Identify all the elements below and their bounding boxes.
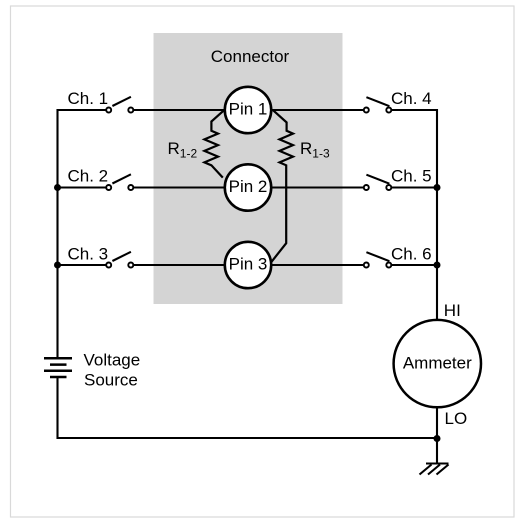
wire: Ch.5 return to right bus: [392, 186, 437, 188]
wire: Pin 3 to switch Ch.6: [262, 264, 363, 266]
node: junction left bus / Ch.3: [54, 262, 61, 269]
node: junction left bus / Ch.2: [54, 184, 61, 191]
svg-text:Ch. 5: Ch. 5: [391, 167, 432, 186]
wire: lower left bus from battery to bottom rail: [58, 377, 439, 438]
connector pin Pin 3: [225, 242, 271, 288]
wire: Ch.3 feed from left bus: [58, 264, 108, 266]
svg-text:Connector: Connector: [211, 47, 290, 66]
node: junction right bus / Ch.6: [434, 262, 441, 269]
wire: switch Ch.3 to Pin 3: [134, 264, 235, 266]
wire: switch Ch.2 to Pin 2: [134, 186, 235, 188]
ground symbol: [420, 464, 449, 475]
svg-text:Ch. 6: Ch. 6: [391, 244, 432, 263]
svg-text:Ch. 1: Ch. 1: [68, 89, 109, 108]
svg-text:Pin 2: Pin 2: [229, 177, 268, 196]
wire: Ch.6 return to right bus: [392, 264, 437, 266]
svg-text:Ammeter: Ammeter: [403, 354, 472, 373]
wire: left bus (Ch.1 feed + vertical to battery): [58, 110, 108, 359]
svg-text:HI: HI: [444, 301, 461, 320]
battery B1 (voltage source): [44, 358, 72, 377]
svg-text:Source: Source: [84, 371, 138, 390]
switch Ch.3: [106, 252, 133, 268]
svg-text:Ch. 3: Ch. 3: [68, 244, 109, 263]
wire: ammeter LO to ground: [436, 405, 438, 464]
switch Ch.2: [106, 174, 133, 190]
connector shaded region: [154, 33, 343, 304]
ammeter M1: [394, 320, 481, 407]
svg-text:LO: LO: [445, 409, 468, 428]
node: junction right bus / Ch.5: [434, 184, 441, 191]
switch Ch.6: [364, 252, 392, 267]
wire: right bus (Ch.4 return + vertical to ammeter HI): [392, 110, 437, 322]
switch Ch.5: [364, 175, 392, 190]
connector pin Pin 2: [225, 164, 271, 210]
svg-text:Pin 1: Pin 1: [229, 100, 268, 119]
svg-text:Ch. 4: Ch. 4: [391, 89, 432, 108]
wire: Pin 1 to switch Ch.4: [262, 109, 363, 111]
svg-text:Pin 3: Pin 3: [229, 255, 268, 274]
node: junction bottom rail / ground: [434, 435, 441, 442]
svg-text:Ch. 2: Ch. 2: [68, 167, 109, 186]
switch Ch.4: [364, 97, 392, 112]
wire: switch Ch.1 to Pin 1: [134, 109, 235, 111]
switch Ch.1: [106, 97, 133, 113]
wire: Pin 2 to switch Ch.5: [262, 186, 363, 188]
label Voltage Source: [84, 351, 141, 390]
svg-text:Voltage: Voltage: [84, 351, 141, 370]
resistor R1-3 (between Pin 1 and Pin 3): [272, 110, 294, 262]
resistor R1-2 (between Pin 1 and Pin 2): [204, 110, 224, 178]
connector pin Pin 1: [225, 87, 271, 133]
wire: Ch.2 feed from left bus: [58, 186, 108, 188]
